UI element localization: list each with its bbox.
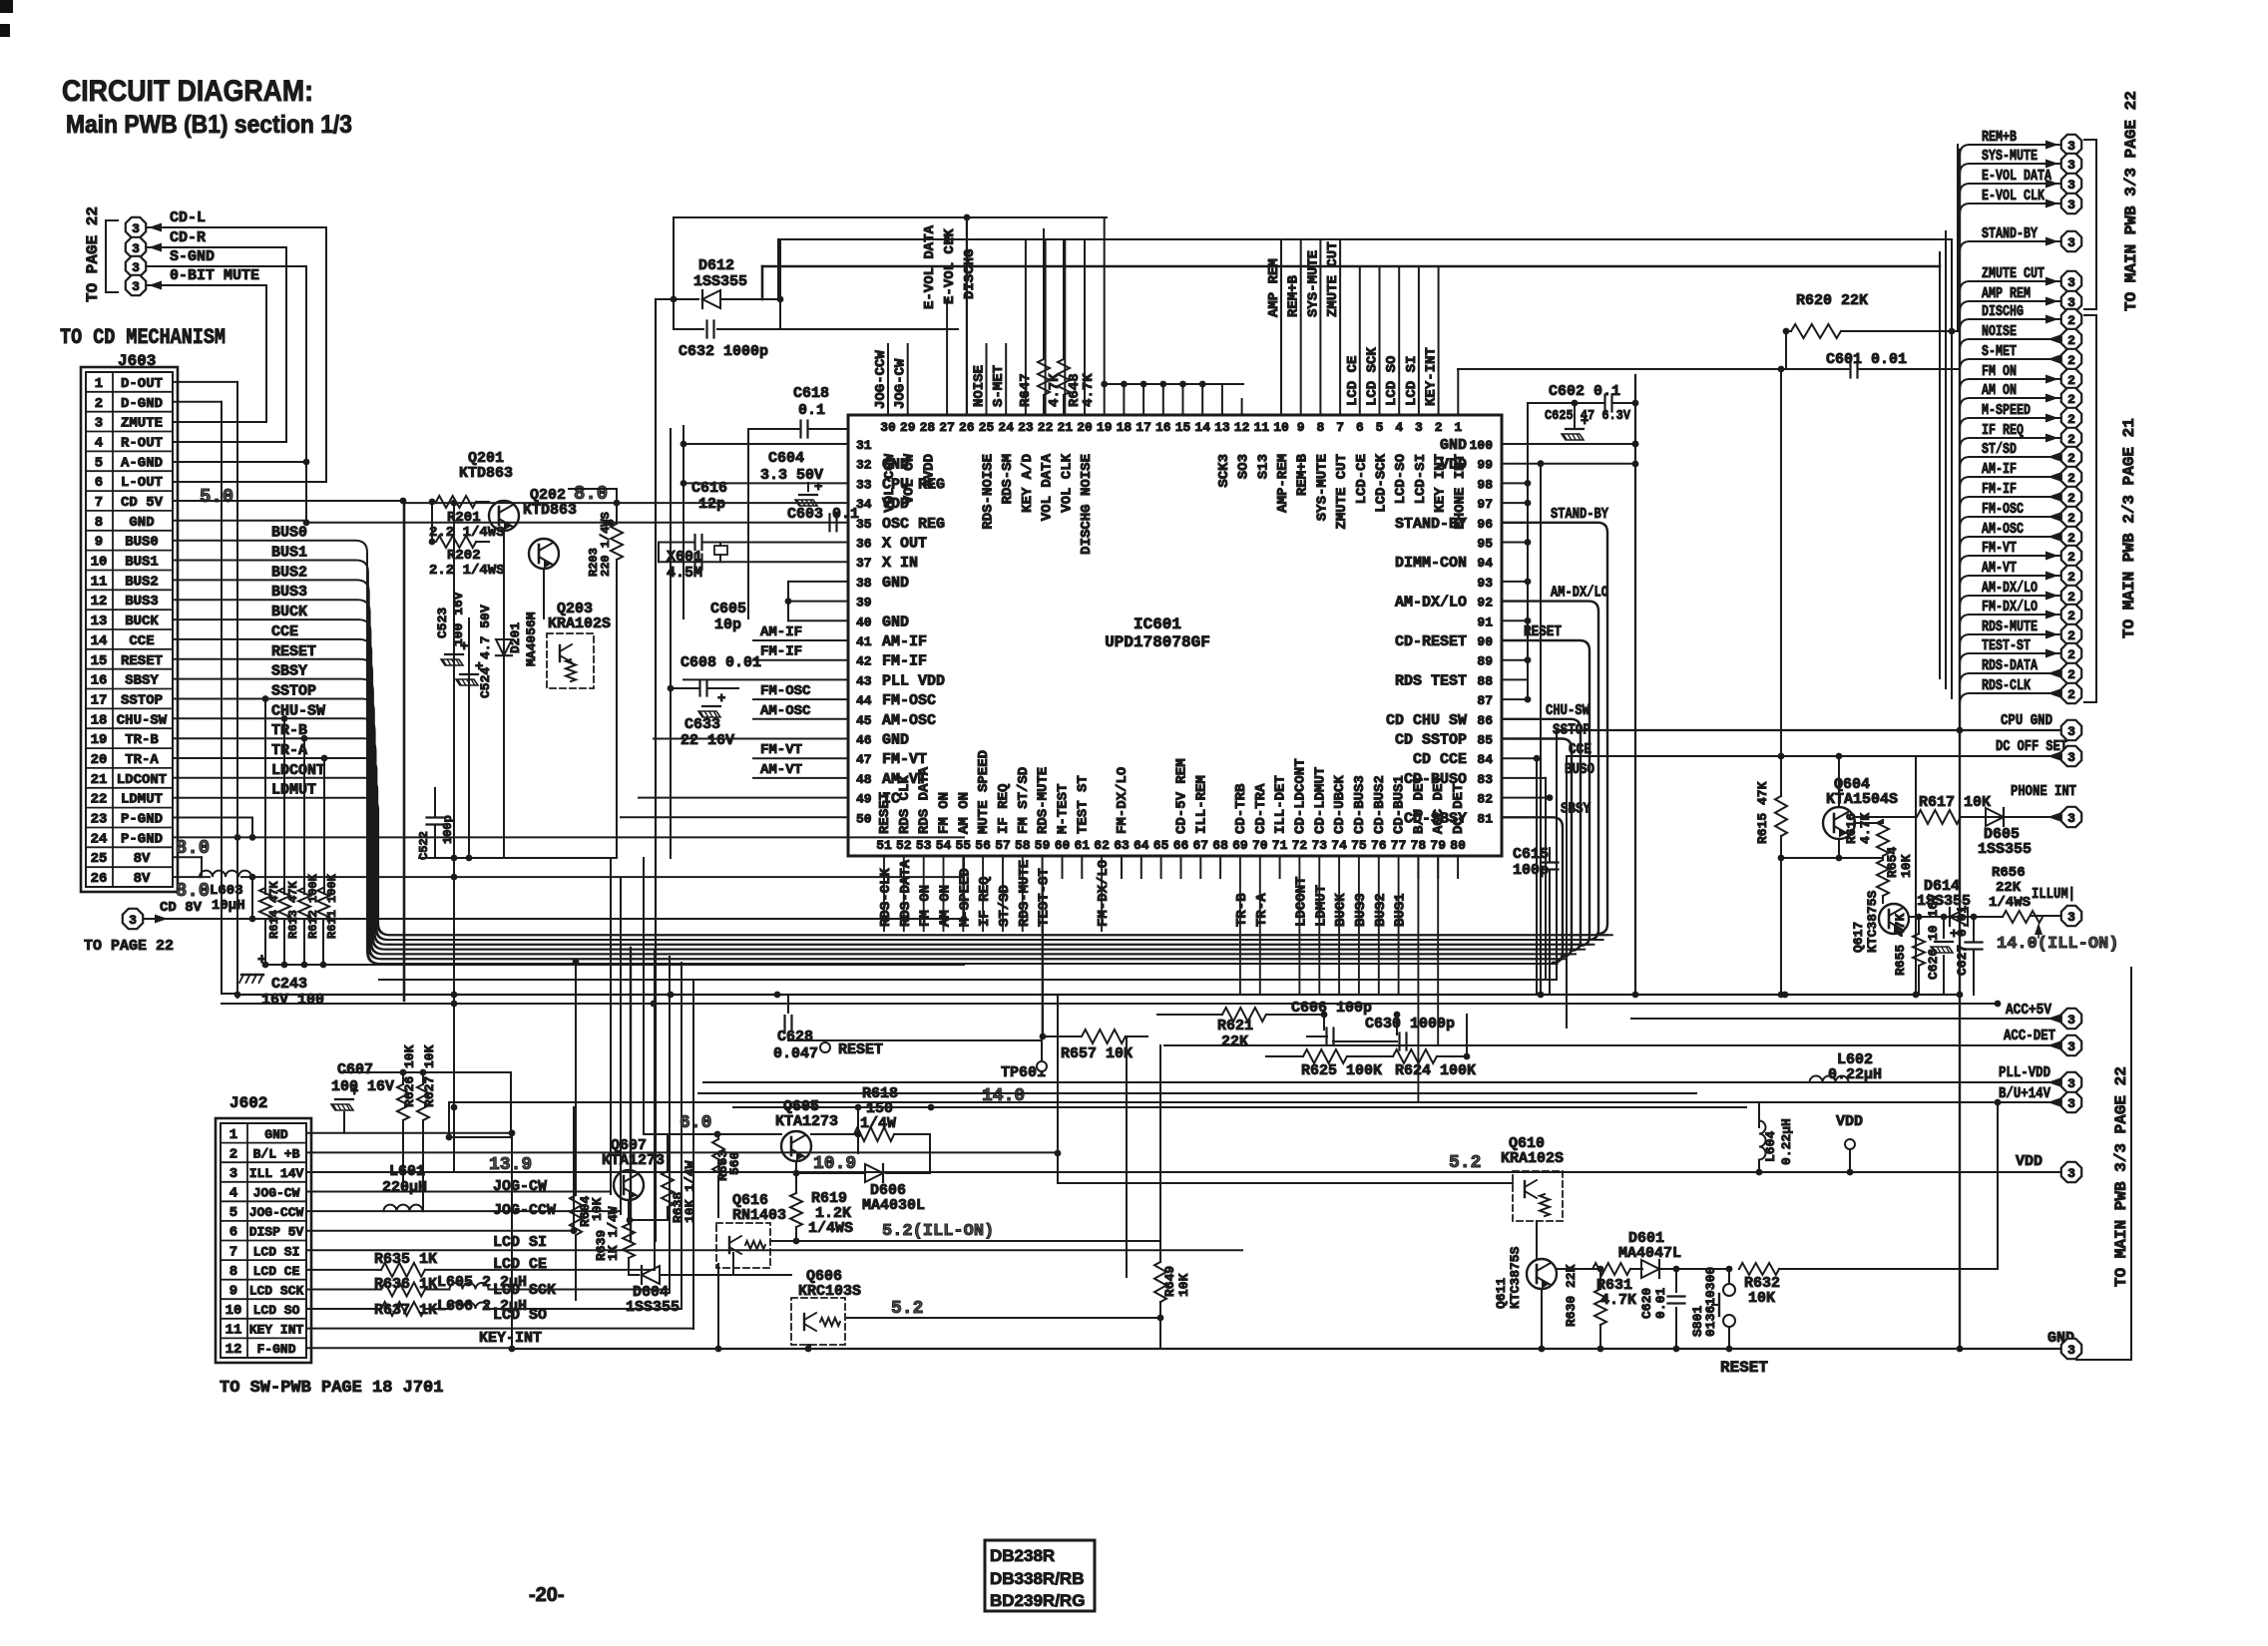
svg-text:2: 2 [229,1146,237,1162]
svg-text:R626 10K: R626 10K [402,1044,417,1107]
svg-text:3: 3 [132,241,140,256]
svg-text:KEY A/D: KEY A/D [1020,454,1036,513]
svg-text:CD 8V: CD 8V [160,900,203,916]
svg-text:TO MAIN PWB 3/3 PAGE 22: TO MAIN PWB 3/3 PAGE 22 [2112,1066,2130,1287]
svg-text:3: 3 [2067,1096,2075,1111]
svg-text:15: 15 [1175,420,1191,435]
svg-text:25: 25 [979,420,995,435]
svg-text:41: 41 [856,634,872,649]
svg-text:0.01: 0.01 [1653,1288,1668,1319]
svg-text:KTA1273: KTA1273 [775,1113,838,1130]
svg-text:DB338R/RB: DB338R/RB [990,1569,1084,1588]
svg-text:L601: L601 [389,1163,425,1180]
svg-text:AM ON: AM ON [956,792,972,834]
svg-text:67: 67 [1192,838,1208,853]
svg-text:4.7K: 4.7K [1047,373,1063,407]
svg-text:55: 55 [955,838,971,853]
svg-text:5.0: 5.0 [200,486,233,508]
svg-text:AM-DX/LO: AM-DX/LO [1395,595,1467,612]
svg-text:LCD SO: LCD SO [1384,356,1400,406]
svg-text:SBSY: SBSY [1561,800,1590,817]
svg-text:LCD SCK: LCD SCK [249,1284,304,1299]
svg-text:+: + [814,480,822,496]
svg-text:26: 26 [91,871,108,887]
svg-text:RDS-NOISE: RDS-NOISE [981,454,997,530]
svg-text:RN1403: RN1403 [732,1207,786,1224]
svg-text:77: 77 [1391,838,1407,853]
svg-text:86: 86 [1477,713,1493,728]
svg-text:P-GND: P-GND [121,831,163,847]
svg-text:2: 2 [2067,531,2075,546]
svg-text:KTD863: KTD863 [523,502,577,519]
svg-text:88: 88 [1477,673,1493,688]
svg-text:3: 3 [2067,139,2075,154]
svg-text:2: 2 [1435,420,1443,435]
svg-text:24: 24 [91,831,108,847]
svg-text:BUS1: BUS1 [125,555,159,571]
svg-text:72: 72 [1292,838,1308,853]
svg-text:R655 47K: R655 47K [1893,913,1908,976]
svg-text:LCD SCK: LCD SCK [1365,347,1381,406]
svg-text:ST/SD: ST/SD [997,885,1013,927]
svg-text:BUCK: BUCK [271,604,307,620]
svg-text:11: 11 [226,1323,242,1339]
svg-text:AM-VT: AM-VT [1982,560,2017,577]
svg-text:R620 22K: R620 22K [1796,292,1868,309]
svg-text:8.0: 8.0 [176,837,210,859]
svg-text:VDD: VDD [2016,1153,2042,1170]
svg-text:LDMUT: LDMUT [1313,885,1329,927]
svg-text:RESET: RESET [271,643,316,660]
svg-text:STAND-BY: STAND-BY [1395,516,1467,533]
svg-text:-20-: -20- [529,1584,565,1606]
svg-text:TEST ST: TEST ST [1075,775,1091,834]
svg-text:SYS-MUTE: SYS-MUTE [1314,454,1330,521]
svg-text:REM+B: REM+B [1295,453,1311,496]
svg-text:LDCONT: LDCONT [1293,877,1309,927]
svg-text:P-GND: P-GND [121,812,163,828]
svg-text:3: 3 [2067,1076,2075,1091]
svg-text:DC OFF SET: DC OFF SET [1996,738,2067,755]
svg-text:TO MAIN PWB 3/3 PAGE 22: TO MAIN PWB 3/3 PAGE 22 [2122,91,2140,311]
svg-text:8.0: 8.0 [574,483,608,505]
svg-text:CPU GND: CPU GND [2001,712,2052,729]
svg-text:VOL DATA: VOL DATA [1040,453,1056,521]
svg-text:JOG-CW: JOG-CW [253,1186,300,1201]
svg-text:49: 49 [856,792,872,807]
svg-text:3: 3 [1415,420,1423,435]
svg-text:89: 89 [1477,654,1493,669]
svg-text:REM+B: REM+B [1982,129,2017,146]
svg-text:LDMUT: LDMUT [271,782,316,799]
svg-text:9: 9 [1297,420,1305,435]
svg-text:D-GND: D-GND [121,396,163,412]
svg-text:22: 22 [91,792,108,808]
svg-text:IF REQ: IF REQ [996,784,1012,834]
svg-text:21: 21 [91,772,108,788]
svg-text:RDS DATA: RDS DATA [917,766,933,834]
svg-text:ST/SD: ST/SD [1982,441,2017,458]
svg-text:ILL 14V: ILL 14V [249,1166,304,1181]
svg-text:1/4WS: 1/4WS [1989,895,2031,911]
svg-text:IF REQ: IF REQ [1982,422,2024,439]
svg-text:RDS-MUTE: RDS-MUTE [1036,767,1052,834]
svg-text:FM-DX/LO: FM-DX/LO [1115,767,1131,834]
svg-text:S-MET: S-MET [991,365,1007,407]
svg-text:1K 1/4W: 1K 1/4W [606,1206,621,1261]
svg-text:CD-TRA: CD-TRA [1253,783,1269,834]
svg-text:VDD: VDD [1440,457,1467,474]
svg-text:+: + [717,691,725,707]
svg-text:7: 7 [229,1244,237,1260]
svg-text:GND: GND [882,732,909,749]
svg-text:40: 40 [856,615,872,629]
svg-text:4.7K: 4.7K [1600,1292,1636,1309]
svg-text:99: 99 [1477,458,1493,473]
svg-text:76: 76 [1371,838,1387,853]
svg-text:R613 47K: R613 47K [286,881,300,939]
svg-text:ILL-REM: ILL-REM [1193,775,1209,834]
svg-text:TO PAGE 22: TO PAGE 22 [84,938,174,955]
svg-text:39: 39 [856,596,872,611]
svg-text:CD-RESET: CD-RESET [1395,633,1467,650]
svg-text:23: 23 [91,812,108,828]
svg-text:RESET: RESET [838,1041,883,1058]
svg-text:OSC REG: OSC REG [882,516,945,533]
svg-text:TO MAIN PWB 2/3 PAGE 21: TO MAIN PWB 2/3 PAGE 21 [2120,418,2138,638]
svg-text:+: + [475,659,483,675]
svg-text:83: 83 [1477,772,1493,787]
svg-text:16: 16 [91,673,108,689]
svg-text:AM ON: AM ON [938,885,954,927]
svg-text:C607: C607 [337,1061,373,1078]
svg-text:8V: 8V [134,871,151,887]
svg-text:VDD: VDD [1836,1113,1863,1130]
svg-text:69: 69 [1232,838,1248,853]
svg-text:B/L +B: B/L +B [253,1146,300,1161]
svg-text:ACC+5V: ACC+5V [2006,1002,2051,1019]
svg-text:RESET: RESET [121,653,163,669]
svg-text:GND: GND [1440,437,1467,454]
svg-text:TO PAGE 22: TO PAGE 22 [84,206,102,302]
svg-text:CD SSTOP: CD SSTOP [1395,732,1467,749]
svg-text:6: 6 [229,1225,237,1241]
svg-text:M-SPEED: M-SPEED [1982,402,2031,419]
svg-text:R627 10K: R627 10K [422,1044,437,1107]
svg-text:LCD-SO: LCD-SO [1393,454,1409,504]
svg-text:51: 51 [876,838,892,853]
svg-text:1SS355: 1SS355 [626,1299,680,1316]
svg-text:X601: X601 [667,549,702,566]
svg-text:64: 64 [1134,838,1149,853]
svg-text:BUS3: BUS3 [125,594,159,610]
svg-text:2: 2 [2067,667,2075,682]
svg-text:4.5M: 4.5M [667,565,702,582]
svg-text:C633: C633 [684,716,720,733]
svg-text:42: 42 [856,654,872,669]
svg-text:65: 65 [1153,838,1169,853]
svg-text:L603: L603 [210,883,243,899]
svg-text:1: 1 [1454,420,1462,435]
svg-text:STAND-BY: STAND-BY [1982,225,2038,242]
svg-text:3: 3 [132,260,140,275]
svg-text:5.2: 5.2 [1449,1153,1481,1173]
svg-text:LCD SI: LCD SI [493,1234,547,1251]
svg-text:SSTOP: SSTOP [271,683,316,700]
svg-text:RDS-MUTE: RDS-MUTE [1017,860,1033,927]
svg-text:10K: 10K [590,1197,605,1221]
svg-text:22K: 22K [1996,880,2022,896]
svg-text:BUS2: BUS2 [271,564,307,581]
svg-text:18: 18 [91,712,108,728]
svg-text:S-MET: S-MET [1982,343,2017,360]
svg-text:3: 3 [2067,1039,2075,1054]
svg-text:VOL CW: VOL CW [902,453,918,504]
svg-text:TEST-ST: TEST-ST [1982,637,2031,654]
svg-text:2: 2 [2067,570,2075,585]
svg-text:10K: 10K [1176,1273,1191,1297]
svg-text:KTC3875S: KTC3875S [1865,890,1880,953]
svg-text:JOG-CCW: JOG-CCW [249,1205,304,1220]
svg-text:S-GND: S-GND [170,248,215,265]
svg-text:X IN: X IN [882,555,918,572]
svg-text:3: 3 [129,913,137,928]
svg-text:CD CCE: CD CCE [1413,751,1467,768]
svg-text:+: + [1581,414,1588,430]
svg-text:RDS-SM: RDS-SM [1000,454,1016,504]
svg-text:TR-B: TR-B [1234,893,1250,927]
svg-text:C524 4.7 50V: C524 4.7 50V [478,605,493,698]
svg-text:TR-A: TR-A [125,752,159,768]
svg-text:13: 13 [91,614,108,629]
svg-text:BUCK: BUCK [1333,893,1349,927]
svg-text:28: 28 [920,420,936,435]
svg-text:CD 5V: CD 5V [121,495,164,511]
svg-text:DISCHG NOISE: DISCHG NOISE [1079,454,1095,555]
svg-text:3: 3 [2067,750,2075,765]
svg-text:68: 68 [1212,838,1228,853]
svg-text:3: 3 [132,221,140,236]
svg-text:BUS2: BUS2 [1373,893,1389,927]
svg-text:C605: C605 [710,601,746,617]
svg-text:3: 3 [2067,275,2075,290]
svg-text:AM-IF: AM-IF [882,633,927,650]
svg-text:73: 73 [1311,838,1327,853]
svg-text:F-GND: F-GND [256,1342,295,1357]
svg-text:ZMUTE CUT: ZMUTE CUT [1334,454,1350,530]
svg-text:IC601: IC601 [1134,616,1181,633]
svg-text:2: 2 [2067,628,2075,643]
svg-text:84: 84 [1477,752,1493,767]
svg-text:13: 13 [1214,420,1230,435]
svg-text:5.2: 5.2 [891,1299,923,1319]
svg-text:FM ON: FM ON [918,885,934,927]
svg-text:BUS0: BUS0 [125,535,159,551]
svg-text:59: 59 [1035,838,1051,853]
svg-text:85: 85 [1477,733,1493,748]
svg-text:44: 44 [856,693,872,708]
svg-text:CHU-SW: CHU-SW [1546,702,1589,719]
svg-text:2: 2 [2067,412,2075,427]
svg-text:D-OUT: D-OUT [121,376,163,392]
svg-text:3: 3 [2067,724,2075,739]
svg-text:FM-IF: FM-IF [882,653,927,670]
svg-text:C628: C628 [777,1029,813,1045]
svg-text:2: 2 [2067,333,2075,348]
svg-text:FM-VT: FM-VT [882,751,927,768]
svg-text:BUS3: BUS3 [271,584,307,601]
svg-text:PLL VDD: PLL VDD [882,672,945,689]
svg-text:LDCONT: LDCONT [117,772,167,788]
svg-text:MUTE SPEED: MUTE SPEED [976,750,992,834]
svg-text:M-TEST: M-TEST [1056,784,1072,834]
svg-text:4: 4 [95,436,103,452]
svg-text:C603 0.1: C603 0.1 [787,506,859,523]
svg-text:GND: GND [882,575,909,592]
svg-text:36: 36 [856,537,872,552]
svg-text:4: 4 [1395,420,1403,435]
svg-text:AM-OSC: AM-OSC [760,703,811,719]
svg-text:25: 25 [91,851,108,867]
svg-text:R654: R654 [1885,847,1900,878]
svg-text:1SS355: 1SS355 [1917,893,1971,910]
svg-text:AVDD: AVDD [921,454,937,488]
svg-text:11: 11 [91,574,108,590]
svg-text:SO3: SO3 [1236,454,1252,479]
svg-text:2: 2 [2067,471,2075,486]
svg-text:2.2 1/4WS: 2.2 1/4WS [429,563,505,579]
svg-text:BUS1: BUS1 [271,545,307,562]
svg-text:+: + [460,639,468,655]
svg-text:74: 74 [1331,838,1347,853]
svg-text:FM-OSC: FM-OSC [760,683,811,699]
svg-text:54: 54 [936,838,952,853]
svg-text:VOL CLK: VOL CLK [1059,453,1075,512]
svg-text:KEY INT: KEY INT [249,1323,304,1338]
svg-text:37: 37 [856,556,872,571]
svg-text:CCE: CCE [129,633,154,649]
svg-text:C601 0.01: C601 0.01 [1826,351,1907,368]
svg-text:FM-IF: FM-IF [1982,481,2017,498]
svg-text:2: 2 [2067,687,2075,702]
svg-text:3: 3 [132,279,140,294]
svg-text:8: 8 [95,515,103,531]
svg-text:2: 2 [2067,550,2075,565]
svg-text:12p: 12p [698,496,725,513]
svg-text:6: 6 [1356,420,1364,435]
svg-text:CD-5V REM: CD-5V REM [1174,758,1190,834]
svg-text:48: 48 [856,772,872,787]
svg-text:100: 100 [1470,438,1494,453]
svg-text:R-OUT: R-OUT [121,436,163,452]
svg-text:BUSO: BUSO [1565,761,1594,778]
svg-text:ILLUM|: ILLUM| [2032,886,2075,903]
svg-text:TO SW-PWB PAGE 18 J701: TO SW-PWB PAGE 18 J701 [220,1379,443,1398]
svg-text:45: 45 [856,713,872,728]
svg-text:CD-TRB: CD-TRB [1233,783,1249,834]
svg-text:71: 71 [1272,838,1288,853]
svg-text:CD-BUSO: CD-BUSO [1404,771,1467,788]
svg-text:MA4030L: MA4030L [862,1197,925,1214]
svg-text:RDS-DATA: RDS-DATA [1982,657,2038,674]
svg-text:81: 81 [1477,811,1493,826]
svg-text:7: 7 [95,495,103,511]
svg-text:C604: C604 [768,450,804,467]
svg-text:3: 3 [2067,910,2075,925]
svg-text:C620: C620 [1639,1288,1654,1319]
svg-text:26: 26 [959,420,975,435]
svg-text:TEST-ST: TEST-ST [1037,868,1053,927]
svg-text:1: 1 [95,376,103,392]
svg-text:LCD-SI: LCD-SI [1413,454,1429,504]
svg-text:CD-L: CD-L [170,209,206,226]
svg-text:S13: S13 [1255,454,1271,479]
svg-text:Q617: Q617 [1851,922,1866,953]
svg-text:MA4047L: MA4047L [1618,1245,1681,1262]
svg-text:DISCHG: DISCHG [1982,303,2024,320]
svg-text:R617 10K: R617 10K [1919,794,1991,811]
svg-text:82: 82 [1477,792,1493,807]
svg-text:LCD CE: LCD CE [253,1264,300,1279]
svg-text:Main PWB (B1) section 1/3: Main PWB (B1) section 1/3 [66,111,352,139]
svg-text:PHONE INT: PHONE INT [2011,783,2076,800]
svg-text:CD-LDMUT: CD-LDMUT [1312,767,1328,834]
svg-text:RESET: RESET [1524,623,1562,640]
svg-text:100 16V: 100 16V [331,1078,394,1095]
svg-text:AM-VT: AM-VT [760,762,802,778]
svg-text:BUCK: BUCK [125,614,159,629]
svg-text:0.047: 0.047 [773,1045,818,1062]
svg-text:BUS1: BUS1 [1393,893,1409,927]
svg-text:JOG-CCW: JOG-CCW [873,350,889,409]
svg-text:C630 1000p: C630 1000p [1365,1016,1455,1032]
svg-text:SBSY: SBSY [125,673,159,689]
svg-text:C618: C618 [793,385,829,402]
svg-text:27: 27 [939,420,955,435]
svg-text:22K: 22K [1221,1033,1248,1050]
svg-text:VOL CCW: VOL CCW [882,453,898,512]
svg-text:FM-VT: FM-VT [1982,540,2017,557]
svg-text:80: 80 [1450,838,1466,853]
svg-text:ZMUTE CUT: ZMUTE CUT [1325,241,1341,317]
svg-text:KRA102S: KRA102S [1501,1150,1564,1167]
svg-text:60: 60 [1055,838,1071,853]
svg-text:FM-OSC: FM-OSC [882,692,936,709]
svg-text:R611 100K: R611 100K [325,873,339,939]
svg-text:2: 2 [2067,609,2075,623]
svg-text:0-BIT MUTE: 0-BIT MUTE [170,267,259,284]
svg-text:100p: 100p [441,815,455,844]
svg-text:LCD-SCK: LCD-SCK [1374,453,1390,512]
svg-text:AM-IF: AM-IF [1982,461,2017,478]
svg-text:FM-VT: FM-VT [760,742,802,758]
svg-text:10K: 10K [1899,854,1914,878]
svg-text:10K 1/4W: 10K 1/4W [682,1160,697,1223]
svg-text:CD-LDCONT: CD-LDCONT [1292,758,1308,834]
svg-text:1/4W: 1/4W [860,1115,896,1132]
svg-text:R201: R201 [447,510,481,526]
svg-text:91: 91 [1477,615,1493,629]
svg-text:8V: 8V [134,851,151,867]
svg-text:3: 3 [95,416,103,432]
svg-text:23: 23 [1018,420,1034,435]
svg-text:98: 98 [1477,477,1493,492]
svg-text:UPD178078GF: UPD178078GF [1105,633,1210,651]
svg-text:CD-R: CD-R [170,229,206,246]
svg-text:SCK3: SCK3 [1216,454,1232,488]
svg-text:C243: C243 [271,976,307,993]
svg-text:TO CD MECHANISM: TO CD MECHANISM [60,325,226,350]
